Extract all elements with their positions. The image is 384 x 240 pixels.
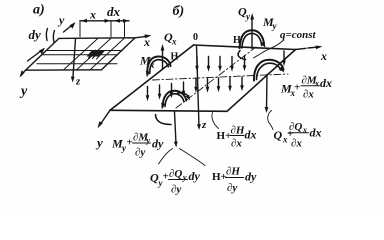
load arrow row2-4 (b): [229, 78, 231, 89]
svg-text:∂H: ∂H: [231, 125, 245, 137]
svg-text:H+: H+: [212, 171, 227, 183]
svg-text:z: z: [201, 119, 207, 131]
svg-text:x: x: [320, 49, 327, 63]
svg-text:z: z: [75, 76, 81, 88]
formula H+dH/dx dx (b): [217, 125, 257, 150]
moment arc My (b): [240, 30, 265, 48]
svg-text:H+: H+: [217, 130, 232, 142]
svg-text:б): б): [173, 4, 185, 19]
load arrow row1-1 (b): [196, 57, 198, 69]
dx strip line 3 (a): [90, 38, 125, 70]
moment arc Mx (b): [147, 56, 170, 74]
dy strip line lower (a): [42, 54, 118, 56]
svg-text:y: y: [19, 84, 28, 99]
formula Qx+dQx/dx dx (b): [274, 121, 322, 150]
svg-text:y: y: [182, 173, 187, 182]
hatched element dxdy (a): [87, 50, 105, 56]
load arrow row2-2 (b): [207, 79, 209, 90]
load arrow row2-3 (b): [218, 78, 220, 89]
formula My+dMy/dy dy (b): [111, 132, 164, 159]
extension tick at origin (a): [79, 21, 81, 37]
load arrow row1-2 (b): [208, 57, 210, 69]
load arrow row1-3 (b): [219, 57, 221, 69]
dimension line x/dx (a): [80, 20, 129, 22]
moment arc Mx+dMx (b): [254, 60, 284, 81]
shear arrow Qx (b): [162, 48, 164, 69]
svg-text:y: y: [146, 136, 151, 145]
plate right edge (b): [227, 50, 296, 112]
svg-text:dx: dx: [310, 126, 322, 140]
plate outline (a) : top edge + x axis: [59, 36, 146, 38]
svg-text:dy: dy: [152, 137, 164, 151]
svg-text:∂y: ∂y: [227, 182, 237, 194]
svg-text:∂x: ∂x: [231, 138, 242, 150]
torsion arc second bottom edge (b): [178, 93, 190, 98]
svg-text:H: H: [233, 35, 241, 46]
leader H+dx (b): [212, 113, 219, 129]
dy extension tick 1 (a): [46, 29, 47, 41]
svg-text:∂Q: ∂Q: [289, 121, 302, 133]
svg-text:∂Q: ∂Q: [169, 168, 182, 180]
svg-text:∂x: ∂x: [291, 138, 302, 150]
dimension arrow dy (a): [28, 49, 44, 61]
svg-text:∂H: ∂H: [226, 166, 240, 178]
svg-text:∂y: ∂y: [135, 147, 145, 159]
center line dash-dot diagonal (b): [176, 47, 256, 108]
svg-text:q=const: q=const: [280, 29, 317, 41]
plate bottom edge (b): [110, 110, 227, 111]
plate left edge (b): [110, 45, 194, 110]
interior line y (a): [37, 63, 117, 65]
extension tick dx right (a): [124, 21, 126, 37]
load arrow row3-4 (b): [183, 82, 185, 93]
z axis (b): [197, 46, 200, 127]
svg-text:x: x: [171, 37, 177, 47]
svg-text:dx: dx: [107, 4, 121, 19]
dy strip line upper (a): [46, 50, 122, 52]
load arrow row2-1 (b): [195, 79, 197, 90]
svg-text:H: H: [171, 52, 179, 63]
svg-text:0: 0: [193, 32, 198, 43]
shear arrow Qy+dQy (b): [175, 112, 177, 144]
svg-text:dx: dx: [320, 76, 332, 90]
dx strip line 1 (a): [64, 38, 99, 70]
formula Mx+dMx/dx dx (b): [280, 75, 332, 101]
y axis (b): [101, 110, 111, 124]
svg-text:dx: dx: [245, 128, 257, 142]
load arrow row3-2 (b): [159, 85, 161, 96]
svg-text:y: y: [57, 13, 65, 27]
svg-text:x: x: [314, 79, 319, 88]
moment arc My+dMy (b): [163, 91, 187, 107]
dx strip line 2 (a): [77, 38, 112, 70]
z axis (a): [73, 39, 76, 80]
svg-text:а): а): [33, 3, 45, 18]
load arrow row2-5 (b): [241, 77, 243, 88]
load arrow row1-4 (b): [231, 57, 233, 69]
load arrow row3-1 (b): [147, 87, 149, 98]
leader line q (b): [254, 41, 284, 59]
leader V right (b): [180, 149, 206, 166]
svg-text:+: +: [163, 171, 169, 183]
svg-text:∂x: ∂x: [303, 89, 314, 101]
load arrow row1-5 (b): [244, 56, 246, 68]
leader V left (b): [159, 149, 173, 165]
formula Qy+dQy/dy dy (b): [150, 168, 201, 196]
svg-text:dy: dy: [29, 27, 42, 42]
torsion arc H bottom edge below (b): [156, 115, 172, 125]
shear arrow Qx+dQx (b): [266, 75, 269, 110]
svg-text:Q: Q: [274, 128, 283, 142]
center line dash-dot horizontal (b): [153, 74, 289, 80]
extension tick dx left (a): [110, 21, 112, 37]
torsion arc H top edge (b): [238, 51, 245, 60]
svg-text:dy: dy: [245, 170, 257, 184]
svg-text:+: +: [127, 137, 133, 149]
plate right edge (a): [102, 38, 136, 70]
leader Qx+ (b): [268, 111, 273, 130]
load arrow right (b): [283, 51, 285, 63]
svg-text:y: y: [95, 135, 103, 150]
dimension arrow y (a): [64, 24, 75, 33]
svg-text:dy: dy: [189, 169, 201, 183]
svg-text:x: x: [143, 35, 150, 49]
svg-text:+: +: [294, 82, 300, 94]
plate left edge + y axis (a): [21, 38, 59, 75]
svg-text:∂y: ∂y: [171, 184, 181, 196]
svg-text:x: x: [89, 8, 96, 22]
load arrow row3-3 (b): [171, 84, 173, 95]
formula H+dH/dy dy (b): [212, 166, 257, 195]
x axis (b): [296, 47, 320, 50]
plate top edge (b): [194, 45, 296, 50]
plate bottom edge (a): [26, 69, 102, 71]
shear arrow Qy (b): [251, 18, 253, 49]
dy extension tick 2 (a): [53, 31, 54, 43]
